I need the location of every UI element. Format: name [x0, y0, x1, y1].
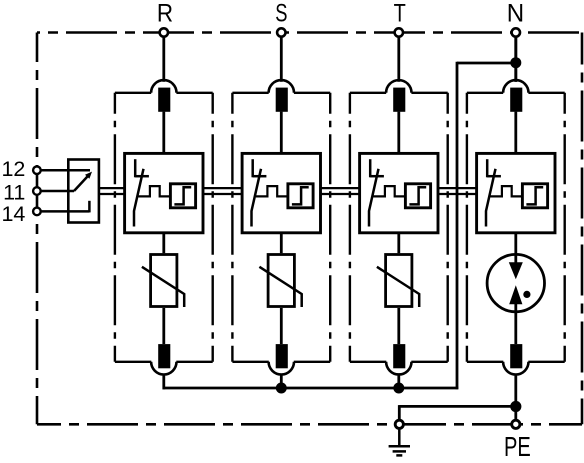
module T enclosure right edge (dash-dot): [447, 93, 449, 362]
module R enclosure right edge (dash-dot): [211, 93, 213, 362]
module S enclosure top edge: [232, 92, 268, 94]
wire PE node to earth terminal: [398, 405, 401, 420]
remote signalling contact box: [68, 160, 99, 223]
bottom thermal disconnector contact bar (S): [276, 344, 288, 368]
trigger box (R): [170, 184, 195, 208]
trigger link step line (R): [138, 186, 170, 196]
enclosure border right edge (dash-dot): [581, 33, 584, 425]
wire spark gap to bottom disconnector (N-PE): [514, 304, 517, 344]
wire bottom disconnector to N collector bus (T): [397, 374, 400, 390]
terminal S: [277, 28, 285, 36]
terminal N: [512, 28, 520, 36]
svg-text:R: R: [157, 1, 173, 28]
trigger threshold symbol (N): [526, 187, 543, 204]
top thermal disconnector contact bar (T): [393, 88, 405, 112]
trigger box (N): [522, 184, 547, 208]
disconnect switch terminal stub (R): [134, 159, 137, 177]
wire terminal 12 lead: [40, 169, 90, 172]
module S enclosure left edge (dash-dot): [231, 93, 233, 362]
spark gap lower electrode triangle: [509, 285, 522, 304]
disconnect switch blade (S): [252, 169, 262, 227]
trigger threshold symbol (S): [292, 187, 309, 204]
enclosure border bottom edge (dash-dot): [37, 423, 582, 426]
wire varistor to bottom disconnector (S): [280, 308, 283, 344]
wire bottom disconnector to N collector bus (R): [162, 374, 165, 390]
top thermal disconnector arc (T): [386, 80, 411, 93]
trigger box (S): [288, 184, 313, 208]
trigger link step line (N): [490, 186, 522, 196]
module N enclosure top edge: [467, 92, 503, 94]
wire terminal 14 lead: [40, 210, 89, 213]
junction dot bus phase T: [393, 383, 404, 394]
mechanical linkage bus upper line: [99, 187, 125, 189]
wire N junction to collector riser: [457, 62, 516, 65]
wire terminal 11 lead: [40, 190, 74, 193]
module N enclosure bottom edge: [467, 361, 503, 363]
wire disconnect box to varistor (R): [162, 233, 165, 253]
terminal PE: [512, 420, 520, 428]
changeover switch blade with arrow: [74, 175, 89, 191]
varistor diagonal stroke (T): [377, 267, 419, 307]
varistor (S): [268, 255, 294, 307]
module R enclosure left edge (dash-dot): [114, 93, 116, 362]
trigger box (T): [405, 184, 430, 208]
svg-text:N: N: [507, 1, 524, 28]
terminal 11: [33, 187, 41, 195]
junction dot bus phase S: [276, 383, 287, 394]
disconnect switch fixed contact tick (N): [487, 175, 501, 178]
bottom thermal disconnector arc (S): [269, 362, 294, 375]
wire PE node to PE terminal: [514, 406, 517, 420]
trigger threshold symbol (T): [409, 187, 426, 204]
disconnect switch fixed contact tick (S): [253, 175, 267, 178]
trigger link step line (T): [373, 186, 405, 196]
disconnect switch blade (R): [134, 169, 144, 227]
wire PE node horizontal: [399, 405, 516, 408]
wire bottom disconnector to N collector bus (S): [280, 374, 283, 390]
svg-text:T: T: [394, 1, 406, 28]
trigger threshold symbol (R): [174, 187, 191, 204]
top thermal disconnector contact bar (R): [158, 88, 170, 112]
wire R terminal to top disconnector: [162, 36, 165, 82]
junction dot at PE node: [510, 401, 521, 412]
wire disconnect box to spark gap (N-PE): [514, 233, 517, 263]
terminal R: [160, 28, 168, 36]
wire top disconnector to disconnect-device box (N): [514, 112, 517, 154]
module S enclosure right edge (dash-dot): [329, 93, 331, 362]
disconnect device box (T): [360, 153, 438, 232]
svg-text:PE: PE: [504, 431, 531, 462]
bottom thermal disconnector arc (T): [386, 362, 411, 375]
module N enclosure right edge (dash-dot): [564, 93, 566, 362]
earth terminal: [395, 420, 403, 428]
disconnect switch blade (T): [369, 169, 379, 227]
wire disconnect box to varistor (T): [397, 233, 400, 253]
svg-text:11: 11: [3, 180, 25, 204]
disconnect device box (N): [477, 153, 555, 232]
mechanical linkage bus lower line: [99, 193, 125, 195]
terminal T: [395, 28, 403, 36]
wire S terminal to top disconnector: [280, 36, 283, 82]
svg-text:14: 14: [1, 202, 25, 226]
bottom thermal disconnector contact bar (R): [158, 344, 170, 368]
trigger link step line (S): [256, 186, 288, 196]
module N enclosure left edge (dash-dot): [466, 93, 468, 362]
spark gap upper electrode triangle: [509, 262, 523, 279]
spark gap trigger dot: [523, 291, 530, 298]
wire N terminal to top disconnector: [514, 36, 517, 82]
top thermal disconnector arc (N): [503, 80, 528, 93]
disconnect switch fixed contact tick (T): [370, 175, 384, 178]
top thermal disconnector contact bar (S): [276, 88, 288, 112]
module T enclosure top edge: [350, 92, 386, 94]
varistor diagonal stroke (R): [142, 267, 184, 307]
disconnect switch terminal stub (N): [486, 159, 489, 177]
bottom thermal disconnector arc (N): [503, 362, 528, 375]
disconnect switch terminal stub (T): [369, 159, 372, 177]
top thermal disconnector contact bar (N): [510, 88, 522, 112]
disconnect device box (S): [242, 153, 320, 232]
bottom thermal disconnector contact bar (N): [510, 344, 522, 368]
varistor (T): [386, 255, 412, 307]
terminal 12: [33, 166, 41, 174]
wire disconnect box to varistor (S): [280, 233, 283, 253]
wire top disconnector to disconnect-device box (R): [162, 112, 165, 154]
wire varistor to bottom disconnector (R): [162, 308, 165, 344]
enclosure border left edge (dash-dot): [36, 33, 39, 425]
bottom thermal disconnector arc (R): [151, 362, 176, 375]
wire bottom disconnector to PE node (N-PE): [514, 374, 517, 408]
earth symbol: [398, 429, 401, 447]
collector riser wire: [456, 62, 459, 390]
svg-text:S: S: [275, 1, 287, 28]
module S enclosure bottom edge: [232, 361, 268, 363]
junction dot on N drop wire: [514, 36, 517, 82]
disconnect device box (R): [125, 153, 203, 232]
contact 14 fixed contact hook: [88, 201, 91, 213]
wire T terminal to top disconnector: [397, 36, 400, 82]
top thermal disconnector arc (R): [151, 80, 176, 93]
disconnect switch terminal stub (S): [251, 159, 254, 177]
bottom thermal disconnector contact bar (T): [393, 344, 405, 368]
varistor diagonal stroke (S): [259, 267, 301, 307]
module T enclosure bottom edge: [350, 361, 386, 363]
spark gap circle (N-PE): [487, 254, 544, 311]
svg-text:12: 12: [1, 157, 25, 181]
module T enclosure left edge (dash-dot): [349, 93, 351, 362]
disconnect switch blade (N): [486, 169, 496, 227]
wire top disconnector to disconnect-device box (S): [280, 112, 283, 154]
varistor (R): [151, 255, 177, 307]
wire top disconnector to disconnect-device box (T): [397, 112, 400, 154]
top thermal disconnector arc (S): [269, 80, 294, 93]
disconnect switch fixed contact tick (R): [135, 175, 149, 178]
module R enclosure top edge: [115, 92, 151, 94]
enclosure border top edge (dash-dot): [37, 31, 582, 34]
module R enclosure bottom edge: [115, 361, 151, 363]
wire varistor to bottom disconnector (T): [397, 308, 400, 344]
N collector bus wire: [163, 387, 459, 390]
terminal 14: [33, 208, 41, 216]
